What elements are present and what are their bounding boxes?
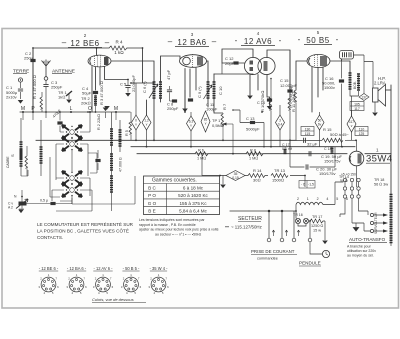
rotary switch wafer B2	[62, 183, 82, 197]
wire top-left B+ bus y48	[33, 48, 154, 83]
coil L4	[110, 154, 113, 176]
svg-text:5000pF: 5000pF	[246, 127, 260, 132]
svg-text:2 1 2 4 5 6: 2 1 2 4 5 6	[297, 197, 351, 201]
mains terminal arrows	[272, 230, 299, 236]
svg-text:S: S	[10, 154, 15, 157]
svg-text:SECTEUR: SECTEUR	[238, 216, 262, 222]
svg-text:15 w: 15 w	[313, 229, 321, 233]
diamond meter 6,3v (MF1 area)	[132, 83, 141, 140]
transformer MF1 primary winding	[153, 82, 156, 98]
svg-text:TR 18: TR 18	[374, 178, 384, 182]
resistor R9 0,12Mohm vertical	[289, 86, 297, 140]
capacitor C13 5000pF	[232, 109, 265, 147]
capacitor 32uF electrolytic	[290, 138, 322, 147]
coil L5 small	[119, 120, 122, 152]
svg-text:A branché pour: A branché pour	[347, 245, 372, 249]
svg-text:110: 110	[359, 127, 365, 131]
capacitor C19 30uF	[290, 164, 338, 176]
wire heater chain from table to diamond	[202, 154, 214, 176]
svg-text:Culots, vue de dessous: Culots, vue de dessous	[92, 297, 134, 302]
wire mid bus y153.7	[137, 153, 391, 155]
trimmer Cv A2	[8, 190, 28, 210]
capacitor C18 50uF	[309, 151, 342, 163]
svg-text:C 13: C 13	[246, 116, 255, 121]
capacitor C4 50uF	[81, 86, 98, 106]
svg-text:5,84 à 6,4 Mc: 5,84 à 6,4 Mc	[179, 209, 208, 214]
svg-text:1500Ω: 1500Ω	[272, 178, 284, 183]
svg-text:12 BA6: 12 BA6	[177, 38, 206, 47]
tube 12BE6 envelope	[88, 55, 111, 67]
capacitor C7 trimmer	[167, 86, 172, 101]
svg-text:- 35 W 4 -: - 35 W 4 -	[150, 266, 169, 271]
svg-text:P O: P O	[148, 193, 156, 198]
svg-text:au secteur • --- n°1 • ---: au secteur • --- n°1 • --- •50Hz	[155, 232, 202, 236]
svg-text:- 12 BE 6 -: - 12 BE 6 -	[39, 266, 59, 271]
wire mid bus link	[347, 139, 356, 141]
capacitor C2 250pF	[24, 48, 36, 112]
transformer MF1 secondary winding	[159, 82, 162, 98]
trimmer arrow MF1	[149, 84, 158, 98]
svg-text:R 3 47.000 Ω: R 3 47.000 Ω	[99, 81, 104, 105]
wire MF1 secondary to 12BA6 grid	[147, 56, 181, 140]
speaker HP	[372, 76, 386, 116]
svg-text:1 MΩ: 1 MΩ	[197, 157, 206, 161]
svg-text:0,5 μ: 0,5 μ	[40, 199, 48, 203]
svg-text:- 6: - 6	[301, 183, 305, 187]
svg-text:-: -	[235, 36, 238, 45]
voltage selector terminal grid	[340, 173, 370, 232]
diamond meter (12AV6)	[276, 105, 285, 147]
coil L2 oscillator	[40, 120, 43, 176]
svg-text:utilisation sur 220v: utilisation sur 220v	[347, 249, 376, 253]
wire 12AV6 pins	[258, 75, 270, 106]
svg-text:–: –	[168, 37, 173, 46]
svg-text:C 10: C 10	[218, 86, 223, 95]
svg-text:A 2: A 2	[8, 206, 13, 210]
label tube V1 35W4	[366, 148, 392, 165]
rotary switch wafer A1	[62, 125, 82, 139]
table gammes couvertes	[144, 176, 220, 215]
ground switch bottom	[18, 210, 24, 214]
trimmer arrow MF2	[204, 85, 213, 99]
svg-text:50 B5: 50 B5	[306, 36, 329, 45]
terminal TERRE	[13, 69, 29, 83]
svg-text:1500v: 1500v	[324, 85, 335, 90]
svg-text:- 12 AV 6 -: - 12 AV 6 -	[93, 266, 113, 271]
ground before diamond	[214, 176, 226, 189]
label auto-transfo	[347, 237, 387, 258]
wire 50B5 pins	[312, 67, 323, 112]
svg-text:125: 125	[359, 132, 365, 136]
tube 50B5 envelope	[307, 54, 330, 67]
svg-text:100pF: 100pF	[206, 107, 218, 112]
diamond meter (35W4)	[347, 110, 356, 140]
svg-text:LE COMMUTATEUR EST REPRÉSENTÉ: LE COMMUTATEUR EST REPRÉSENTÉ SUR	[37, 221, 134, 227]
svg-text:R 9 0,12 MΩ: R 9 0,12 MΩ	[289, 86, 293, 108]
capacitor C15 12000pF coupling	[280, 50, 297, 98]
svg-text:CONTACTS.: CONTACTS.	[37, 235, 63, 240]
wire mid bus y146.7	[131, 146, 355, 148]
clock pendule	[299, 242, 330, 266]
wire terminals row y112	[20, 111, 130, 113]
svg-text:B C: B C	[148, 186, 156, 191]
label prise de courant	[251, 249, 297, 261]
wire switch region verticals	[21, 112, 116, 204]
svg-text:0,4: 0,4	[278, 123, 283, 127]
resistor 1250 ohm 15w	[310, 215, 325, 233]
capacitor C12 20uF	[222, 56, 253, 99]
svg-text:- 50 B 5 -: - 50 B 5 -	[123, 266, 140, 271]
svg-text:–: –	[62, 38, 67, 47]
svg-text:137: 137	[361, 95, 367, 99]
boxed voltage table small (50B5)	[350, 102, 364, 112]
svg-text:BOB.: BOB.	[353, 81, 357, 89]
svg-text:PRISE DE COURANT: PRISE DE COURANT	[251, 249, 295, 254]
svg-text:150/175v: 150/175v	[319, 171, 335, 176]
ground on terminal row	[103, 108, 109, 112]
svg-text:~ 115.127/50Hz: ~ 115.127/50Hz	[231, 225, 262, 230]
svg-text:2.LRA: 2.LRA	[374, 81, 386, 86]
wire right bus x391	[390, 85, 392, 195]
capacitor 470pF (osc)	[52, 108, 63, 128]
svg-text:56 Ω 3w: 56 Ω 3w	[374, 183, 388, 187]
svg-text:47 pF: 47 pF	[166, 69, 171, 80]
svg-text:R 2 22kΩ: R 2 22kΩ	[97, 114, 101, 130]
svg-text:TR 13: TR 13	[274, 168, 286, 173]
wire 50B5 plate to output transformer	[330, 59, 350, 73]
diamond meter (50B5 cathode)	[315, 112, 324, 147]
resistor TR15 56 ohm label	[374, 178, 388, 187]
svg-text:Gammes couvertes.: Gammes couvertes.	[152, 178, 197, 184]
tube socket 35W4 bottom view	[148, 266, 169, 295]
wire MF2 secondary detector line	[213, 74, 215, 113]
resistor R6 1Mohm on bus	[195, 149, 208, 161]
diamond meter (12BA6)	[187, 112, 196, 147]
wire output transformer bottoms	[350, 55, 373, 116]
svg-text:155 à 375 Kc: 155 à 375 Kc	[179, 201, 207, 206]
svg-text:Les tensions indiquées sont me: Les tensions indiquées sont mesurées par	[139, 218, 205, 222]
tube 12AV6 envelope (double diode triode, two circles)	[244, 57, 275, 74]
svg-text:ajuster au mieux pour lecture: ajuster au mieux pour lecture voix puis …	[139, 228, 219, 232]
coil L1 frame antenna	[6, 118, 23, 176]
antenna ANTENNE	[42, 60, 75, 81]
resistor R3 47000 ohm vertical hatched	[94, 81, 110, 112]
tube socket 12BE6 bottom view	[38, 266, 59, 295]
tube 35W4 envelope	[349, 151, 364, 166]
svg-text:G O: G O	[148, 201, 157, 206]
wire diode line y74	[208, 74, 253, 107]
svg-text:R 14: R 14	[253, 168, 262, 173]
svg-text:commandée: commandée	[257, 257, 278, 261]
ground power section	[322, 221, 328, 244]
resistor left column small	[25, 146, 28, 176]
output transformer box	[340, 51, 354, 60]
capacitor C3 250pF	[43, 80, 62, 112]
coil L6 right lower	[110, 176, 113, 211]
transformer MF2 secondary winding	[213, 82, 216, 98]
svg-text:-: -	[279, 36, 282, 45]
svg-text:C 6 (*): C 6 (*)	[142, 81, 147, 93]
svg-text:AUTO-TRANSFO: AUTO-TRANSFO	[349, 237, 386, 242]
svg-text:1kΩ: 1kΩ	[58, 95, 65, 100]
capacitor C11 100pF	[206, 102, 218, 112]
resistor R13 thermistor	[271, 168, 305, 187]
wire HP top link	[386, 89, 392, 91]
wire mains line y211	[230, 210, 296, 212]
note text commutateur	[37, 221, 134, 240]
wire 12BE6 plate to MF1	[112, 61, 155, 82]
svg-text:–: –	[105, 38, 110, 47]
capacitor 12BA6 cathode	[188, 98, 193, 101]
boxed voltage table small (35W4 left)	[301, 127, 314, 137]
svg-text:250pF: 250pF	[51, 85, 63, 90]
wire left bus x33	[32, 48, 34, 112]
resistor R11 vertical	[288, 92, 296, 147]
capacitor 0,5uF (switch bottom)	[27, 199, 73, 206]
wire 12BA6 pins	[185, 68, 196, 112]
capacitor C5 22000pF decoupling	[120, 75, 136, 97]
resistor R4 1kOhm	[109, 40, 127, 56]
boxed voltage table small (35W4 right)	[355, 127, 368, 137]
svg-text:50Ω à 45~: 50Ω à 45~	[330, 132, 349, 137]
transformer MF2 primary winding	[207, 82, 210, 98]
resistor R10 470kohm vertical	[260, 78, 272, 147]
capacitor C8 250pF with ground	[167, 90, 188, 112]
svg-text:1 kΩ: 1 kΩ	[114, 50, 124, 55]
svg-text:1250 Ω: 1250 Ω	[311, 224, 324, 228]
svg-text:115: 115	[305, 132, 311, 136]
label tube V2 12BE6	[62, 33, 110, 48]
rotary switch wafer B1	[62, 171, 82, 185]
potentiometer TR1 1kohm with ground	[58, 90, 72, 103]
resistor R8 1Mohm on bus	[246, 149, 263, 161]
wire 12AV6 plate up and to R10	[222, 49, 290, 100]
mains terminals	[267, 210, 312, 242]
potentiometer P1 0,5Mohm	[212, 103, 233, 154]
diamond meter 10 (heater chain)	[226, 171, 245, 181]
svg-text:6 à 18 Mc: 6 à 18 Mc	[183, 186, 204, 191]
svg-text:47.000 Ω: 47.000 Ω	[119, 157, 123, 172]
svg-text:B E: B E	[148, 209, 155, 214]
svg-text:R 4: R 4	[115, 40, 123, 45]
svg-text:520 à 1620 Kc: 520 à 1620 Kc	[178, 193, 208, 198]
label tube V3 12BA6	[168, 32, 217, 47]
svg-text:TR 17: TR 17	[312, 215, 322, 219]
svg-text:12 AV6: 12 AV6	[244, 37, 272, 46]
caption culots vue de dessous	[92, 297, 146, 302]
auto-transfo tap arrows	[370, 213, 388, 232]
svg-text:-: -	[298, 35, 301, 44]
svg-text:R 5: R 5	[125, 130, 129, 136]
capacitor C18	[324, 147, 334, 154]
boxed values power	[299, 181, 315, 189]
svg-text:R 7: R 7	[222, 103, 227, 110]
coil L3	[110, 112, 113, 154]
tube socket 12AV6 bottom view	[93, 266, 114, 295]
diamond meter 137 (B+)	[359, 62, 369, 101]
svg-text:au moyen du sél.: au moyen du sél.	[347, 254, 374, 258]
svg-text:-1,5: -1,5	[308, 183, 314, 187]
svg-text:20μF: 20μF	[225, 61, 235, 66]
svg-text:130: 130	[305, 127, 311, 131]
wire mid bus AVC y140.3	[36, 139, 296, 141]
rotary switch wafer A2	[62, 137, 82, 151]
diamond meter (12BE6 cathode)	[142, 115, 151, 147]
svg-text:rapport à la masse , P.B. En c: rapport à la masse , P.B. En contrôle	[139, 223, 196, 227]
svg-text:TR 16: TR 16	[293, 213, 303, 217]
resistor R1 47000 ohm vertical	[32, 75, 43, 112]
svg-text:1 MΩ: 1 MΩ	[249, 157, 258, 161]
svg-text:C 18: C 18	[324, 147, 332, 151]
SECTEUR label	[225, 216, 262, 230]
tube socket 12BA6 bottom view	[66, 266, 87, 295]
svg-text:LA POSITION BC , GALETTES VUES: LA POSITION BC , GALETTES VUES CÔTÉ	[37, 228, 129, 234]
wire 12BE6 pins	[92, 48, 128, 112]
svg-text:150/175v: 150/175v	[324, 159, 340, 164]
svg-text:105: 105	[354, 102, 360, 106]
pilot lamps E10	[293, 211, 310, 226]
resistor R15 50 ohm	[296, 127, 349, 142]
svg-text:–: –	[212, 37, 217, 46]
svg-text:C 14: C 14	[257, 101, 265, 105]
resistor R14 30 ohm	[245, 168, 268, 183]
capacitor C1 electrolytic with ground	[6, 82, 23, 104]
capacitor switch mid	[95, 159, 100, 162]
svg-text:12 BE6: 12 BE6	[70, 39, 99, 48]
tube socket 50B5 bottom view	[121, 266, 142, 295]
tube 12BA6 envelope	[180, 54, 207, 68]
svg-text:32 μF: 32 μF	[307, 142, 318, 147]
svg-text:C 5: C 5	[120, 82, 127, 87]
resistor TR14 label	[339, 175, 349, 183]
wire lower left connections	[19, 176, 135, 211]
svg-text:0,15: 0,15	[232, 176, 239, 180]
svg-text:250pF: 250pF	[167, 106, 179, 111]
svg-text:30Ω: 30Ω	[253, 178, 261, 183]
capacitor C17 0,1mf	[282, 143, 292, 154]
capacitor C16 50000pF	[322, 61, 344, 147]
wire 12BA6 plate to MF2	[207, 61, 209, 82]
label tube V4 12AV6	[235, 31, 282, 46]
svg-text:R 1 47.000 Ω: R 1 47.000 Ω	[32, 75, 37, 99]
wire 50B5 grid	[296, 61, 307, 90]
svg-text:117: 117	[354, 107, 360, 111]
output transformer primary choke	[349, 73, 361, 90]
svg-text:- 12 BA 6 -: - 12 BA 6 -	[67, 266, 87, 271]
svg-text:CADRE: CADRE	[6, 156, 10, 168]
svg-text:2x10v: 2x10v	[6, 95, 17, 100]
wire 35W4 cathode/heater drops	[290, 140, 357, 187]
svg-text:50μF: 50μF	[82, 91, 92, 96]
label tube V5 50B5	[298, 30, 339, 45]
auto-transfo winding vertical	[374, 195, 393, 247]
terminal labels M P L O M on switch line	[21, 106, 118, 113]
note text under table	[139, 218, 219, 236]
resistor R5 vertical	[125, 112, 132, 140]
svg-text:-: -	[336, 35, 339, 44]
svg-text:20kΩ: 20kΩ	[81, 101, 91, 106]
svg-text:PENDULE: PENDULE	[299, 261, 321, 266]
auto-transfo top winding with taps	[296, 182, 351, 211]
diamond meter (MF2)	[201, 111, 210, 132]
svg-text:C 9 (*): C 9 (*)	[197, 86, 202, 98]
svg-text:50 Ω: 50 Ω	[340, 179, 348, 183]
svg-text:6v: 6v	[318, 123, 322, 127]
